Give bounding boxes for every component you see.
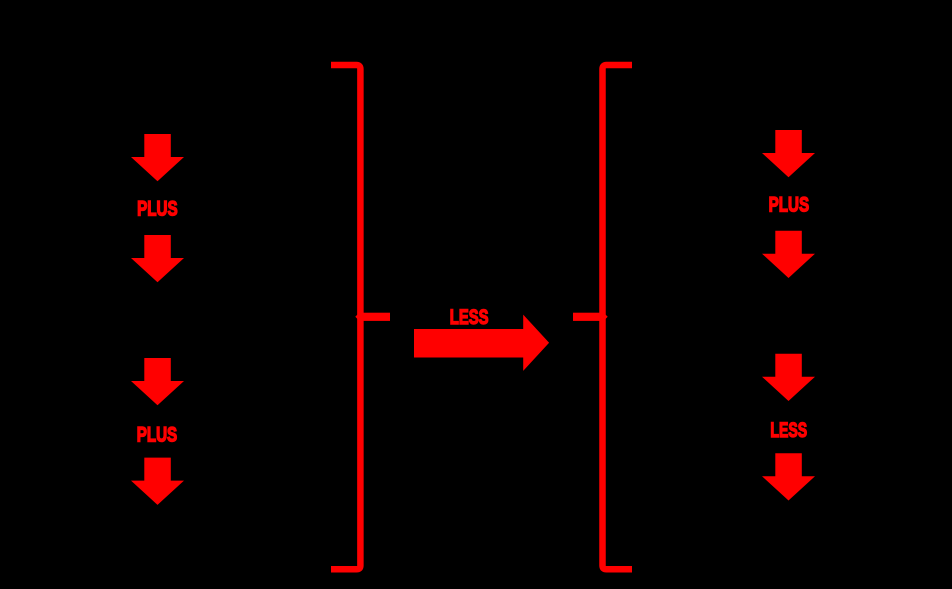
- down arrow L3: [131, 358, 184, 405]
- down arrow L4: [131, 458, 184, 505]
- label PLUS left top: [137, 198, 178, 221]
- svg-text:LESS: LESS: [770, 419, 807, 442]
- label LESS center: [450, 306, 489, 329]
- left closing brace: [331, 65, 390, 569]
- down arrow R3: [762, 354, 815, 401]
- down arrow L1: [131, 134, 184, 181]
- down arrow R1: [762, 130, 815, 177]
- label LESS right: [770, 419, 807, 442]
- down arrow L2: [131, 235, 184, 282]
- svg-text:PLUS: PLUS: [137, 198, 178, 221]
- right opening brace: [573, 65, 632, 569]
- label PLUS left bottom: [137, 424, 178, 447]
- svg-text:PLUS: PLUS: [769, 194, 810, 217]
- down arrow R4: [762, 453, 815, 500]
- down arrow R2: [762, 231, 815, 278]
- big right arrow: [414, 315, 549, 371]
- svg-text:PLUS: PLUS: [137, 424, 178, 447]
- svg-text:LESS: LESS: [450, 306, 489, 329]
- label PLUS right: [769, 194, 810, 217]
